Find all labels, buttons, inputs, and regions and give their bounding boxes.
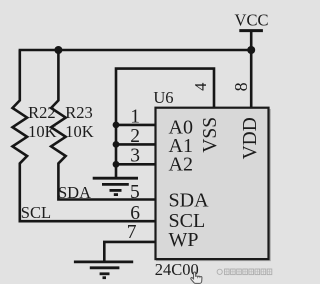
svg-text:SDA: SDA: [169, 189, 210, 211]
svg-text:2: 2: [130, 126, 140, 147]
svg-text:WP: WP: [169, 229, 199, 251]
svg-text:4: 4: [191, 83, 210, 91]
svg-text:6: 6: [130, 203, 140, 224]
svg-text:3: 3: [130, 145, 140, 166]
svg-text:VSS: VSS: [200, 117, 221, 153]
svg-text:R22: R22: [28, 103, 56, 122]
svg-text:R23: R23: [65, 103, 93, 122]
svg-text:7: 7: [127, 222, 137, 243]
svg-text:10K: 10K: [28, 122, 56, 141]
svg-text:A2: A2: [169, 153, 193, 175]
svg-text:1: 1: [130, 106, 140, 127]
svg-text:5: 5: [130, 182, 140, 203]
svg-text:VCC: VCC: [235, 10, 269, 29]
svg-text:8: 8: [231, 82, 251, 91]
svg-text:SCL: SCL: [21, 203, 51, 222]
svg-text:VDD: VDD: [240, 117, 261, 159]
svg-text:SDA: SDA: [58, 183, 91, 202]
svg-text:U6: U6: [153, 88, 173, 107]
svg-text:10K: 10K: [65, 122, 94, 141]
svg-text:24C00: 24C00: [155, 260, 199, 279]
